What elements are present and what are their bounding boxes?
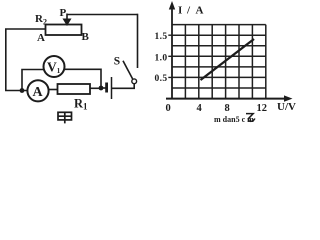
y axis tick marks: [168, 35, 172, 77]
svg-text:1.0: 1.0: [155, 54, 168, 64]
svg-text:I/A: I/A: [178, 5, 204, 17]
svg-text:1.5: 1.5: [155, 32, 168, 42]
switch S hinge circle: [132, 79, 137, 84]
svg-text:R1: R1: [74, 97, 88, 112]
switch S blade: [123, 61, 133, 80]
svg-text:0.5: 0.5: [155, 74, 168, 84]
node junction dot right: [99, 86, 104, 91]
wire top from slider to right rail: [67, 14, 138, 16]
battery positive long plate: [111, 77, 113, 99]
svg-text:4: 4: [197, 103, 203, 114]
caption jia (甲) glyph: [58, 112, 72, 123]
wire switch to battery: [112, 84, 134, 89]
resistor R2 rheostat body: [46, 25, 82, 36]
wire right rail down to switch contact: [137, 14, 139, 68]
wire top-left from rheostat terminal A to left rail: [5, 28, 46, 30]
graph grid: [172, 25, 266, 99]
battery negative short plate: [105, 83, 108, 93]
resistor R1 body: [58, 84, 91, 94]
caption yi (乙) glyph: [246, 114, 255, 122]
voltmeter V1 circle: [44, 56, 65, 77]
x axis U: [166, 98, 284, 100]
ammeter A1 circle: [27, 80, 48, 101]
node junction dot left: [20, 88, 25, 93]
svg-text:B: B: [82, 31, 90, 43]
svg-text:8: 8: [225, 103, 230, 114]
svg-text:R2: R2: [35, 13, 47, 27]
svg-text:0: 0: [166, 103, 171, 114]
wire battery to node: [101, 87, 106, 89]
svg-text:U/V: U/V: [277, 101, 296, 113]
wire voltmeter branch right to node: [65, 69, 102, 88]
y axis I: [171, 8, 173, 99]
svg-text:P: P: [60, 7, 67, 19]
plotted I-U line: [201, 39, 255, 80]
wire bottom-left to ammeter: [5, 90, 28, 92]
svg-text:A: A: [33, 85, 44, 100]
wire node to resistor R1: [90, 87, 101, 89]
svg-text:m dan5 c m: m dan5 c m: [214, 115, 254, 124]
wire voltmeter branch left riser: [22, 70, 44, 92]
svg-text:S: S: [114, 56, 120, 68]
wire left rail: [5, 29, 7, 92]
svg-text:A: A: [37, 32, 45, 44]
rheostat slider arrow: [64, 14, 70, 25]
svg-text:12: 12: [257, 103, 268, 114]
wire ammeter to resistor R1: [49, 89, 59, 91]
